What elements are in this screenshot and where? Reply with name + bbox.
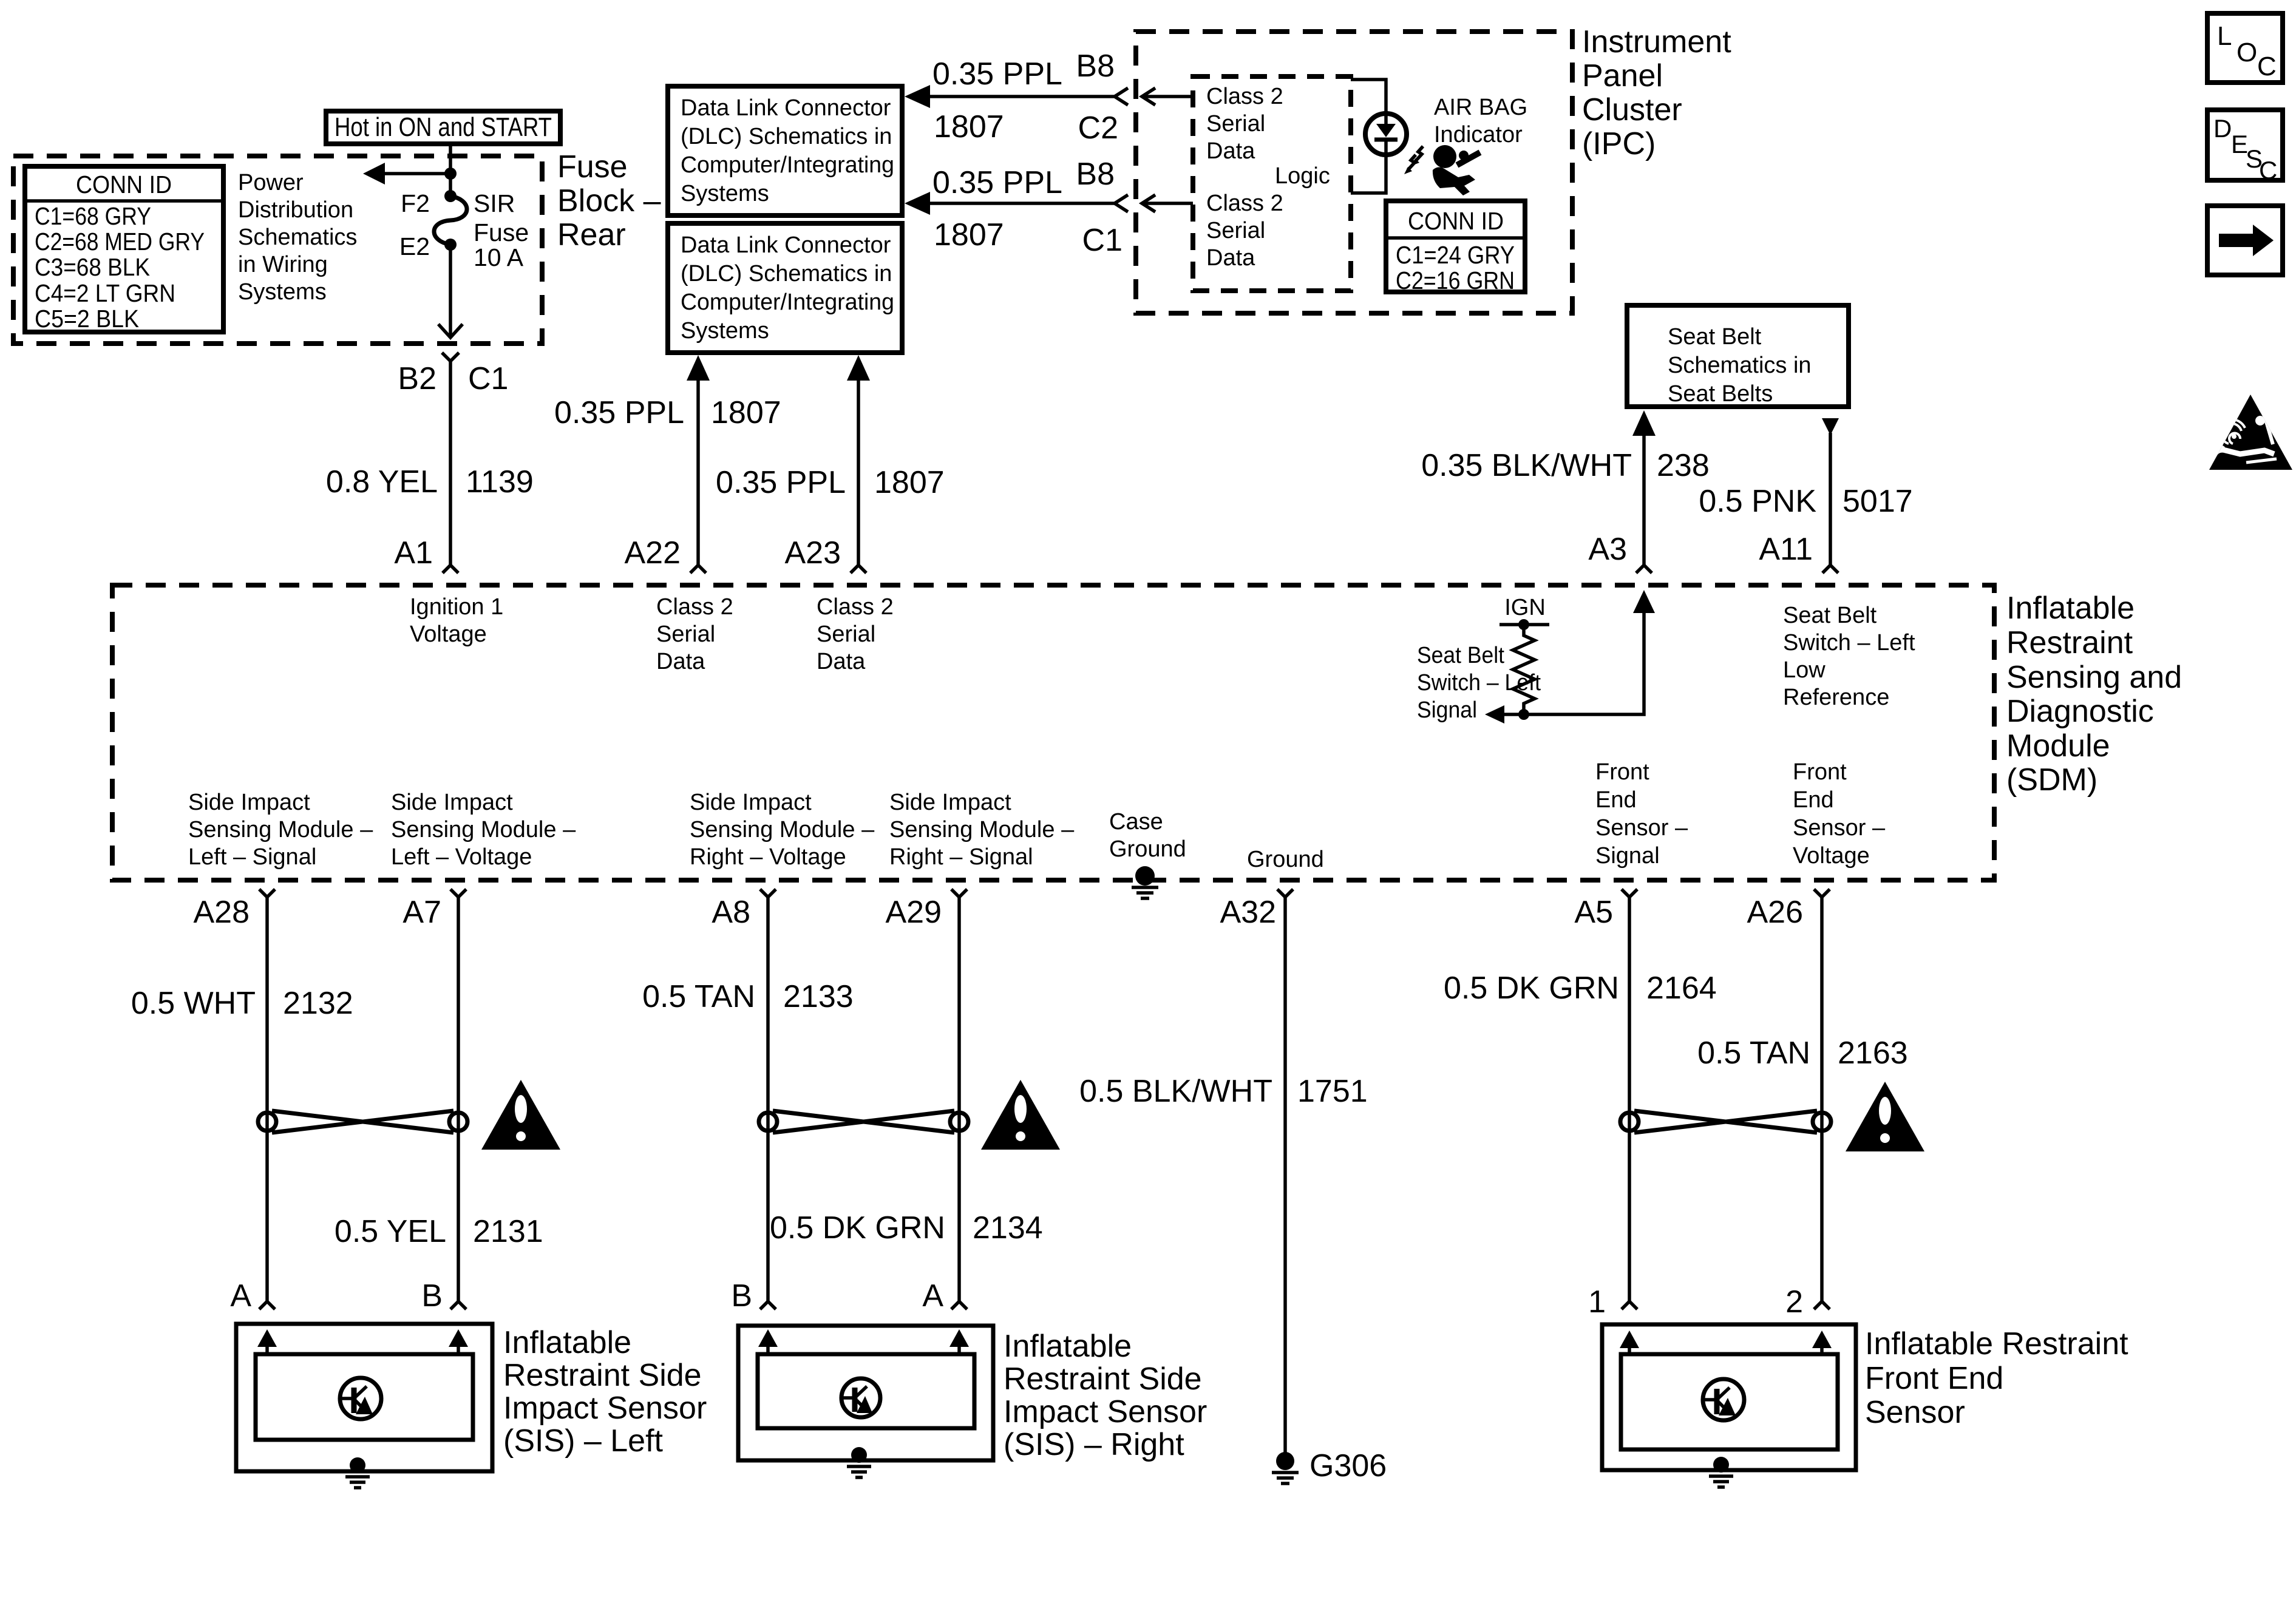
wire: 0.8 YEL 1139 to SDM A1 bbox=[326, 370, 534, 565]
svg-text:Ground: Ground bbox=[1109, 836, 1186, 862]
twisted pair symbol (left SIS) bbox=[258, 1111, 467, 1133]
svg-text:Ignition 1: Ignition 1 bbox=[410, 594, 503, 620]
wire: class 2 serial data SDM A22 up to lower DLC (0.35 PPL 1807) bbox=[554, 355, 781, 565]
wire: 0.5 TAN 2163 (A26 to front sensor 2) bbox=[1697, 897, 1908, 1301]
warning triangle (right SIS) bbox=[981, 1080, 1060, 1150]
svg-text:Side Impact: Side Impact bbox=[889, 790, 1011, 815]
svg-text:Logic: Logic bbox=[1275, 163, 1330, 189]
label: Side Impact Sensing Module - Right - Voltage bbox=[690, 790, 875, 870]
svg-text:O: O bbox=[2237, 38, 2257, 67]
wire: LED return to logic box bbox=[1351, 155, 1386, 193]
label: Inflatable Restraint Front End Sensor bbox=[1865, 1326, 2128, 1430]
svg-text:A: A bbox=[230, 1278, 251, 1314]
svg-text:Inflatable Restraint: Inflatable Restraint bbox=[1865, 1326, 2128, 1361]
accelerometer symbol (SIS right) bbox=[841, 1378, 880, 1417]
label: Class 2 Serial Data (A22) bbox=[656, 594, 733, 674]
svg-text:1807: 1807 bbox=[934, 109, 1004, 144]
svg-text:Left – Signal: Left – Signal bbox=[188, 844, 316, 870]
svg-text:Restraint Side: Restraint Side bbox=[1004, 1361, 1202, 1397]
label: Class 2 Serial Data (lower) bbox=[1206, 191, 1283, 271]
svg-text:(SIS) – Right: (SIS) – Right bbox=[1004, 1427, 1184, 1462]
svg-text:Indicator: Indicator bbox=[1434, 122, 1523, 147]
svg-text:A3: A3 bbox=[1588, 532, 1627, 567]
svg-text:A1: A1 bbox=[394, 535, 433, 571]
pin A23 (fork down) bbox=[784, 535, 866, 573]
svg-text:Cluster: Cluster bbox=[1582, 92, 1682, 127]
svg-text:A8: A8 bbox=[712, 895, 750, 930]
IPC internal connector arrow (lower, to C1) bbox=[1142, 195, 1193, 212]
svg-text:2133: 2133 bbox=[783, 979, 854, 1014]
svg-text:CONN ID: CONN ID bbox=[76, 171, 172, 198]
svg-text:A29: A29 bbox=[885, 895, 942, 930]
pin A7 (fork up) bbox=[402, 889, 466, 930]
label: Seat Belt Switch - Left Low Reference bbox=[1783, 603, 1915, 710]
svg-text:C1=68 GRY: C1=68 GRY bbox=[35, 202, 151, 230]
svg-text:A5: A5 bbox=[1574, 895, 1613, 930]
svg-text:Right – Signal: Right – Signal bbox=[889, 844, 1033, 870]
pin A29 (fork up) bbox=[885, 889, 967, 930]
svg-text:Fuse: Fuse bbox=[474, 219, 529, 246]
pin A8 (fork up) bbox=[712, 889, 776, 930]
accelerometer symbol (SIS left) bbox=[340, 1378, 381, 1419]
resistor (seat belt switch pull-up) bbox=[1513, 625, 1535, 714]
svg-text:Computer/Integrating: Computer/Integrating bbox=[681, 290, 894, 315]
wire: ignition feed from Hot box down to fuse bbox=[449, 144, 452, 196]
svg-text:C1: C1 bbox=[1082, 223, 1123, 258]
svg-text:0.35 PPL: 0.35 PPL bbox=[716, 465, 846, 500]
wire: 0.35 BLK/WHT 238 from SDM A3 up to seat belt schematics bbox=[1421, 410, 1710, 565]
svg-text:2132: 2132 bbox=[283, 986, 353, 1021]
arrow into SIS right terminal B bbox=[758, 1329, 778, 1354]
wire: 0.5 YEL 2131 (A7 to SIS left B) bbox=[335, 897, 543, 1301]
svg-text:Voltage: Voltage bbox=[1793, 843, 1870, 869]
svg-text:C3=68 BLK: C3=68 BLK bbox=[35, 253, 150, 281]
svg-text:Case: Case bbox=[1109, 809, 1163, 835]
twisted pair symbol (right SIS) bbox=[759, 1111, 968, 1133]
DLC box upper bbox=[668, 86, 902, 215]
svg-text:0.5 TAN: 0.5 TAN bbox=[1697, 1036, 1810, 1071]
svg-text:Front: Front bbox=[1793, 759, 1847, 785]
svg-text:C: C bbox=[2257, 52, 2277, 81]
svg-text:Side Impact: Side Impact bbox=[690, 790, 812, 815]
wire: fuse output to connector C1 (open arrow down) bbox=[438, 245, 463, 337]
warning triangle (front sensor) bbox=[1846, 1082, 1924, 1151]
svg-text:Sensing Module –: Sensing Module – bbox=[690, 817, 875, 842]
svg-text:Reference: Reference bbox=[1783, 685, 1889, 710]
svg-text:B2: B2 bbox=[398, 361, 436, 396]
svg-text:IGN: IGN bbox=[1504, 595, 1546, 620]
svg-text:Inflatable: Inflatable bbox=[1004, 1329, 1132, 1364]
svg-text:in Wiring: in Wiring bbox=[238, 252, 328, 277]
svg-text:Module: Module bbox=[2006, 728, 2110, 764]
LOC icon box bbox=[2207, 13, 2283, 83]
svg-text:Data: Data bbox=[656, 649, 705, 674]
fuse F2/E2 SIR Fuse 10 A bbox=[399, 189, 529, 271]
svg-text:Sensor –: Sensor – bbox=[1793, 815, 1886, 841]
svg-text:0.5 PNK: 0.5 PNK bbox=[1699, 484, 1816, 519]
svg-text:B8: B8 bbox=[1076, 49, 1115, 84]
airbag pictogram bbox=[1433, 145, 1480, 195]
svg-text:Side Impact: Side Impact bbox=[188, 790, 310, 815]
svg-text:D: D bbox=[2213, 114, 2232, 143]
label: Front End Sensor - Voltage bbox=[1793, 759, 1886, 869]
arrow into SIS left terminal B bbox=[449, 1329, 468, 1354]
svg-text:A22: A22 bbox=[624, 535, 681, 571]
svg-text:AIR BAG: AIR BAG bbox=[1434, 95, 1527, 120]
svg-text:Data Link Connector: Data Link Connector bbox=[681, 95, 891, 121]
svg-text:Serial: Serial bbox=[656, 622, 715, 647]
junction node bbox=[444, 168, 457, 180]
svg-text:Left – Voltage: Left – Voltage bbox=[391, 844, 532, 870]
svg-text:C2=16 GRN: C2=16 GRN bbox=[1396, 266, 1515, 294]
svg-text:Sensor: Sensor bbox=[1865, 1395, 1965, 1430]
svg-text:Side Impact: Side Impact bbox=[391, 790, 513, 815]
wire: logic box to AIR BAG indicator LED bbox=[1351, 80, 1386, 115]
svg-text:Front: Front bbox=[1595, 759, 1649, 785]
svg-text:0.5 DK GRN: 0.5 DK GRN bbox=[770, 1210, 945, 1246]
wire: resistor node to A3 (up arrow) bbox=[1524, 590, 1655, 714]
svg-text:2131: 2131 bbox=[473, 1214, 543, 1249]
pin A3 (fork down) bbox=[1588, 532, 1652, 573]
svg-text:0.8 YEL: 0.8 YEL bbox=[326, 464, 438, 500]
svg-text:Voltage: Voltage bbox=[410, 622, 487, 647]
svg-text:5017: 5017 bbox=[1843, 484, 1913, 519]
svg-text:Data: Data bbox=[1206, 138, 1255, 164]
wire: 0.5 WHT 2132 (A28 to SIS left A) bbox=[131, 897, 353, 1301]
pin B (SIS right) fork down bbox=[731, 1278, 776, 1314]
SIS left case ground bbox=[345, 1457, 370, 1488]
LED airbag indicator lamp bbox=[1365, 114, 1407, 155]
svg-text:A26: A26 bbox=[1747, 895, 1803, 930]
svg-text:Systems: Systems bbox=[681, 318, 769, 344]
label: Instrument Panel Cluster (IPC) bbox=[1582, 24, 1731, 161]
label: Ignition 1 Voltage bbox=[410, 594, 503, 647]
svg-text:A11: A11 bbox=[1759, 532, 1813, 567]
svg-text:C1: C1 bbox=[468, 361, 508, 396]
forward arrow icon box bbox=[2207, 206, 2283, 275]
IPC dashed box bbox=[1136, 32, 1572, 313]
svg-text:C4=2 LT GRN: C4=2 LT GRN bbox=[35, 279, 175, 307]
svg-text:1751: 1751 bbox=[1297, 1074, 1368, 1109]
svg-text:Seat Belt: Seat Belt bbox=[1783, 603, 1877, 628]
svg-text:Impact Sensor: Impact Sensor bbox=[503, 1391, 707, 1426]
svg-text:0.35 PPL: 0.35 PPL bbox=[554, 395, 684, 430]
svg-text:0.35 PPL: 0.35 PPL bbox=[932, 56, 1062, 92]
svg-text:1: 1 bbox=[1588, 1284, 1606, 1320]
svg-text:A32: A32 bbox=[1220, 895, 1276, 930]
wire: 0.5 DK GRN 2164 (A5 to front sensor 1) bbox=[1444, 897, 1717, 1301]
label: Inflatable Restraint Side Impact Sensor (SIS) - Right bbox=[1004, 1329, 1207, 1462]
svg-text:A28: A28 bbox=[193, 895, 250, 930]
svg-text:1139: 1139 bbox=[466, 464, 534, 500]
svg-text:10 A: 10 A bbox=[474, 243, 524, 271]
svg-text:Ground: Ground bbox=[1247, 847, 1324, 872]
svg-text:G306: G306 bbox=[1309, 1448, 1387, 1483]
arrow into SIS right terminal A bbox=[949, 1329, 969, 1354]
IGN feed bar bbox=[1500, 619, 1549, 630]
wire: 0.5 BLK/WHT 1751 ground wire bbox=[1079, 897, 1368, 1456]
arrow into front sensor terminal 1 bbox=[1620, 1331, 1639, 1354]
wire: 0.5 DK GRN 2134 (A29 to SIS right A) bbox=[770, 897, 1043, 1301]
warning triangle (left SIS) bbox=[481, 1080, 560, 1150]
svg-text:Right – Voltage: Right – Voltage bbox=[690, 844, 846, 870]
wire: class 2 serial data SDM A23 up to lower DLC (0.35 PPL 1807) bbox=[716, 355, 945, 565]
svg-text:C2=68 MED GRY: C2=68 MED GRY bbox=[35, 228, 205, 256]
DLC box lower bbox=[668, 223, 902, 353]
svg-text:Seat Belts: Seat Belts bbox=[1668, 381, 1773, 407]
pin A (SIS right) fork down bbox=[922, 1278, 967, 1314]
svg-text:238: 238 bbox=[1657, 448, 1710, 483]
label: Front End Sensor - Signal bbox=[1595, 759, 1688, 869]
svg-text:0.5 BLK/WHT: 0.5 BLK/WHT bbox=[1079, 1074, 1272, 1109]
connector pins B2 | C1 (fork up) bbox=[398, 353, 508, 396]
pin A5 (fork up) bbox=[1574, 889, 1637, 930]
svg-text:Systems: Systems bbox=[681, 181, 769, 206]
svg-text:0.5 YEL: 0.5 YEL bbox=[335, 1214, 446, 1249]
arrow into front sensor terminal 2 bbox=[1812, 1331, 1832, 1354]
svg-text:C: C bbox=[2259, 156, 2277, 185]
label: Class 2 Serial Data (A23) bbox=[817, 594, 894, 674]
svg-text:Data: Data bbox=[817, 649, 866, 674]
svg-text:Signal: Signal bbox=[1417, 697, 1477, 723]
IPC internal connector arrow (upper, to C2) bbox=[1142, 88, 1193, 105]
IPC connector ID table bbox=[1386, 201, 1525, 294]
svg-text:L: L bbox=[2217, 21, 2232, 51]
svg-text:F2: F2 bbox=[401, 189, 430, 217]
svg-text:0.5 WHT: 0.5 WHT bbox=[131, 986, 256, 1021]
pin 1 (front sensor) fork down bbox=[1588, 1284, 1637, 1320]
label: Inflatable Restraint Sensing and Diagnostic Module (SDM) bbox=[2006, 591, 2182, 798]
wire: 0.5 PNK 5017 from seat belt switch down to SDM A11 bbox=[1699, 418, 1912, 565]
wire: branch arrow to other loads (left) bbox=[363, 163, 450, 185]
svg-text:Data: Data bbox=[1206, 245, 1255, 271]
svg-text:Data Link Connector: Data Link Connector bbox=[681, 232, 891, 258]
svg-text:(IPC): (IPC) bbox=[1582, 126, 1656, 161]
SDM dashed box bbox=[112, 585, 1994, 880]
svg-text:Serial: Serial bbox=[1206, 218, 1265, 243]
label: Fuse Block - Rear bbox=[557, 149, 661, 253]
svg-text:End: End bbox=[1595, 787, 1637, 813]
pin A32 (fork up) bbox=[1220, 889, 1293, 930]
svg-text:Diagnostic: Diagnostic bbox=[2006, 694, 2154, 729]
svg-text:SIR: SIR bbox=[474, 189, 515, 217]
svg-text:Class 2: Class 2 bbox=[656, 594, 733, 620]
inflatable restraint front end sensor box bbox=[1602, 1324, 1856, 1470]
svg-text:Signal: Signal bbox=[1595, 843, 1660, 869]
pin B (SIS left) fork down bbox=[421, 1278, 466, 1314]
accelerometer symbol (front sensor) bbox=[1703, 1379, 1744, 1420]
svg-text:Block –: Block – bbox=[557, 183, 661, 219]
svg-text:Class 2: Class 2 bbox=[1206, 191, 1283, 216]
inflatable restraint side impact sensor (SIS) right box bbox=[738, 1326, 993, 1460]
LED light emission arrows bbox=[1404, 146, 1423, 174]
svg-text:Serial: Serial bbox=[1206, 111, 1265, 137]
svg-text:0.5 TAN: 0.5 TAN bbox=[642, 979, 755, 1014]
pin A26 (fork up) bbox=[1747, 889, 1830, 930]
svg-text:A7: A7 bbox=[402, 895, 441, 930]
label box: Hot in ON and START bbox=[326, 111, 560, 144]
svg-text:2: 2 bbox=[1785, 1284, 1803, 1320]
connector ID table (fuse block) bbox=[25, 166, 223, 333]
svg-text:1807: 1807 bbox=[874, 465, 945, 500]
svg-text:Computer/Integrating: Computer/Integrating bbox=[681, 152, 894, 178]
label: Class 2 Serial Data (upper) bbox=[1206, 84, 1283, 164]
svg-text:C5=2 BLK: C5=2 BLK bbox=[35, 305, 139, 333]
svg-text:1807: 1807 bbox=[711, 395, 781, 430]
label: Side Impact Sensing Module - Left - Voltage bbox=[391, 790, 576, 870]
svg-text:B: B bbox=[731, 1278, 752, 1314]
front sensor case ground bbox=[1709, 1457, 1733, 1487]
svg-text:Inflatable: Inflatable bbox=[2006, 591, 2135, 626]
svg-text:Instrument: Instrument bbox=[1582, 24, 1731, 59]
DESC icon box bbox=[2207, 110, 2283, 185]
svg-text:Low: Low bbox=[1783, 657, 1826, 683]
svg-text:0.35 PPL: 0.35 PPL bbox=[932, 165, 1062, 200]
SIS right case ground bbox=[847, 1447, 871, 1477]
svg-text:Systems: Systems bbox=[238, 279, 327, 305]
wire: seat belt switch left signal arrow (left) bbox=[1485, 705, 1524, 724]
label: AIR BAG Indicator bbox=[1434, 95, 1527, 147]
svg-text:Sensing Module –: Sensing Module – bbox=[188, 817, 373, 842]
label: Case Ground bbox=[1109, 809, 1186, 862]
svg-text:Seat Belt: Seat Belt bbox=[1417, 643, 1504, 668]
svg-text:Power: Power bbox=[238, 170, 304, 195]
Seat Belt Schematics box bbox=[1627, 305, 1849, 407]
pin A1 (fork down) bbox=[394, 535, 458, 573]
twisted pair symbol (front sensor) bbox=[1620, 1111, 1831, 1133]
wire: 0.35 PPL 1807 from IPC C1 to upper DLC (B8) bbox=[905, 157, 1128, 258]
svg-text:2134: 2134 bbox=[973, 1210, 1043, 1246]
label: Inflatable Restraint Side Impact Sensor (SIS) - Left bbox=[503, 1325, 707, 1459]
svg-text:(DLC) Schematics in: (DLC) Schematics in bbox=[681, 124, 892, 149]
label: Power Distribution Schematics in Wiring Systems bbox=[238, 170, 357, 305]
svg-text:Sensing Module –: Sensing Module – bbox=[391, 817, 576, 842]
svg-text:2164: 2164 bbox=[1646, 971, 1717, 1006]
svg-text:Seat Belt: Seat Belt bbox=[1668, 324, 1762, 350]
pin A28 (fork up) bbox=[193, 889, 275, 930]
svg-text:(DLC) Schematics in: (DLC) Schematics in bbox=[681, 261, 892, 286]
svg-text:1807: 1807 bbox=[934, 217, 1004, 253]
arrow into SIS left terminal A bbox=[257, 1329, 277, 1354]
svg-text:Restraint Side: Restraint Side bbox=[503, 1358, 702, 1393]
svg-text:Distribution: Distribution bbox=[238, 197, 353, 223]
svg-text:Serial: Serial bbox=[817, 622, 875, 647]
svg-text:B: B bbox=[421, 1278, 443, 1314]
svg-text:Schematics: Schematics bbox=[238, 225, 357, 250]
pin A22 (fork down) bbox=[624, 535, 706, 573]
svg-text:A23: A23 bbox=[784, 535, 841, 571]
svg-text:CONN ID: CONN ID bbox=[1408, 207, 1504, 235]
svg-text:Switch – Left: Switch – Left bbox=[1783, 630, 1915, 656]
case ground node and symbol bbox=[1132, 866, 1158, 898]
wire: 0.5 TAN 2133 (A8 to SIS right B) bbox=[642, 897, 854, 1301]
node at resistor bottom bbox=[1518, 709, 1529, 720]
svg-text:E2: E2 bbox=[399, 232, 430, 260]
svg-text:Sensing and: Sensing and bbox=[2006, 660, 2182, 695]
ground G306 bbox=[1272, 1448, 1387, 1483]
svg-text:0.35 BLK/WHT: 0.35 BLK/WHT bbox=[1421, 448, 1632, 483]
svg-text:Inflatable: Inflatable bbox=[503, 1325, 631, 1360]
wire: 0.35 PPL 1807 from IPC C2 to upper DLC (B8) bbox=[905, 49, 1128, 146]
svg-text:Rear: Rear bbox=[557, 217, 626, 253]
inflatable restraint side impact sensor (SIS) left box bbox=[236, 1324, 492, 1471]
svg-text:(SIS) – Left: (SIS) – Left bbox=[503, 1423, 664, 1459]
SIR caution triangle (airbag pictogram) bbox=[2209, 395, 2292, 470]
svg-text:Panel: Panel bbox=[1582, 58, 1663, 93]
svg-text:2163: 2163 bbox=[1838, 1036, 1908, 1071]
svg-text:0.5 DK GRN: 0.5 DK GRN bbox=[1444, 971, 1619, 1006]
svg-text:A: A bbox=[922, 1278, 943, 1314]
fuse block - rear dashed box bbox=[13, 156, 542, 344]
svg-text:(SDM): (SDM) bbox=[2006, 762, 2097, 798]
label: Side Impact Sensing Module - Left - Signal bbox=[188, 790, 373, 870]
IPC logic dashed box bbox=[1193, 76, 1351, 291]
svg-text:Fuse: Fuse bbox=[557, 149, 628, 185]
svg-text:Class 2: Class 2 bbox=[817, 594, 894, 620]
svg-text:Sensor –: Sensor – bbox=[1595, 815, 1688, 841]
svg-text:Sensing Module –: Sensing Module – bbox=[889, 817, 1075, 842]
label: Side Impact Sensing Module - Right - Signal bbox=[889, 790, 1075, 870]
svg-text:Front End: Front End bbox=[1865, 1361, 2003, 1396]
svg-text:Schematics in: Schematics in bbox=[1668, 353, 1812, 378]
pin 2 (front sensor) fork down bbox=[1785, 1284, 1830, 1320]
svg-text:Switch – Left: Switch – Left bbox=[1417, 670, 1541, 696]
label: Seat Belt Switch - Left Signal bbox=[1417, 643, 1541, 723]
pin A11 (fork down) bbox=[1759, 532, 1838, 573]
svg-text:End: End bbox=[1793, 787, 1834, 813]
svg-text:Impact Sensor: Impact Sensor bbox=[1004, 1394, 1207, 1429]
svg-text:B8: B8 bbox=[1076, 157, 1115, 192]
svg-text:Hot in ON and START: Hot in ON and START bbox=[335, 112, 552, 142]
svg-text:Class 2: Class 2 bbox=[1206, 84, 1283, 109]
svg-text:C1=24 GRY: C1=24 GRY bbox=[1396, 241, 1515, 269]
svg-text:C2: C2 bbox=[1078, 110, 1118, 146]
pin A (SIS left) fork down bbox=[230, 1278, 275, 1314]
svg-text:Restraint: Restraint bbox=[2006, 625, 2133, 660]
